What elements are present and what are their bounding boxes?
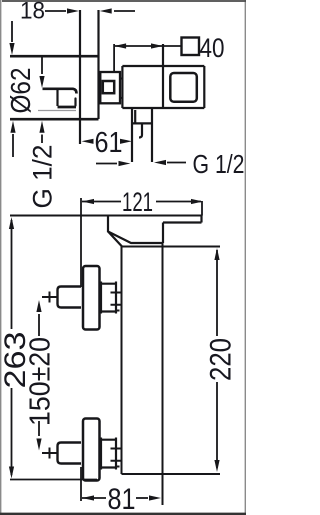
top union sleeve	[100, 282, 117, 314]
dim Ø62 top arrow	[11, 21, 13, 42]
svg-text:220: 220	[205, 338, 238, 381]
svg-text:150±20: 150±20	[25, 337, 57, 426]
svg-text:61: 61	[95, 127, 123, 159]
outlet inner detail	[139, 123, 142, 138]
wall line	[97, 10, 99, 119]
dim 61 right arrow	[120, 139, 132, 144]
body outline top view	[122, 44, 204, 108]
flange bottom edge	[10, 118, 99, 121]
bottom union pipe end tick	[49, 448, 51, 459]
dim 40 extension left	[113, 44, 115, 72]
top union nut	[83, 266, 100, 330]
outlet pipe top edge	[43, 89, 77, 94]
extension 121 right	[201, 201, 203, 216]
svg-text:81: 81	[108, 483, 136, 515]
thread G1/2 upper arrow	[41, 58, 43, 75]
top union collar	[111, 293, 122, 311]
bottom union collar	[111, 449, 122, 467]
dim 40 dimension line	[114, 45, 181, 47]
dim 18 dimension line left	[45, 10, 66, 12]
body top edge with 220 extension	[122, 246, 221, 248]
bottom union sleeve	[100, 438, 117, 470]
top union pipe end tick	[49, 292, 51, 303]
escutcheon tab top	[120, 78, 124, 80]
dim 220	[216, 250, 218, 468]
body bottom edge with 220 extension	[122, 473, 221, 475]
dim 61 left arrow	[82, 139, 94, 144]
bottom union pipe	[42, 452, 58, 454]
outlet thread left arrow	[96, 163, 117, 165]
body right edge	[162, 243, 164, 505]
top reference line	[10, 215, 202, 217]
bottom union stub	[58, 443, 82, 464]
extension line outlet face	[79, 10, 81, 144]
wall escutcheon inner	[103, 81, 114, 93]
outlet inner vertical	[56, 89, 58, 106]
dim 150±20 top arrow	[38, 314, 40, 336]
square symbol	[182, 38, 200, 56]
thread G1/2 lower arrow	[41, 135, 43, 144]
outlet hook	[74, 99, 76, 106]
dim 263 bottom extension	[10, 479, 97, 481]
extension stub face	[80, 198, 82, 287]
dim 81 left extension	[80, 467, 82, 501]
svg-text:Ø62: Ø62	[5, 68, 36, 114]
wall escutcheon outer	[100, 72, 120, 103]
dim 150±20 bottom arrow	[38, 421, 40, 436]
dim 81 left	[82, 497, 106, 499]
flange top edge	[10, 55, 99, 58]
dim 121 line right	[156, 201, 201, 203]
dim 263	[11, 220, 13, 475]
dim 121 line left	[82, 201, 121, 203]
lever outline	[108, 216, 202, 247]
body left edge	[121, 247, 123, 475]
handle inner square	[170, 73, 197, 102]
dim 81 right	[136, 497, 148, 499]
svg-text:G 1/2: G 1/2	[28, 145, 58, 209]
svg-text:121: 121	[122, 187, 153, 217]
top union stub	[58, 287, 82, 308]
dim Ø62 bottom arrow	[12, 134, 14, 157]
top union pipe	[42, 296, 58, 298]
svg-text:18: 18	[20, 0, 45, 25]
bottom union nut	[83, 419, 100, 481]
svg-text:G 1/2: G 1/2	[193, 149, 245, 179]
outlet bottom edge	[58, 106, 77, 109]
outlet thread right arrow	[167, 162, 186, 164]
outlet pipe below body	[132, 109, 152, 163]
border frame	[1, 0, 246, 515]
svg-text:40: 40	[200, 33, 225, 63]
hidden edge	[38, 110, 76, 112]
dim 18 dimension line right	[114, 10, 135, 12]
escutcheon tab bottom	[120, 97, 124, 99]
